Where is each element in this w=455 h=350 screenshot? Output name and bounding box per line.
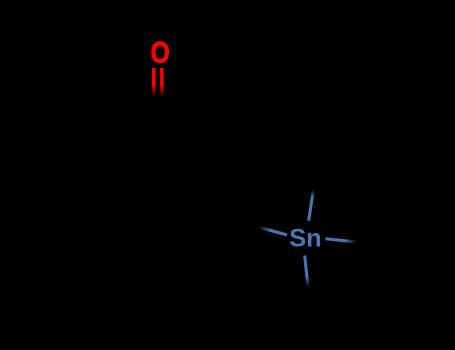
svg-text:Sn: Sn <box>289 225 321 253</box>
svg-text:O: O <box>151 35 170 69</box>
